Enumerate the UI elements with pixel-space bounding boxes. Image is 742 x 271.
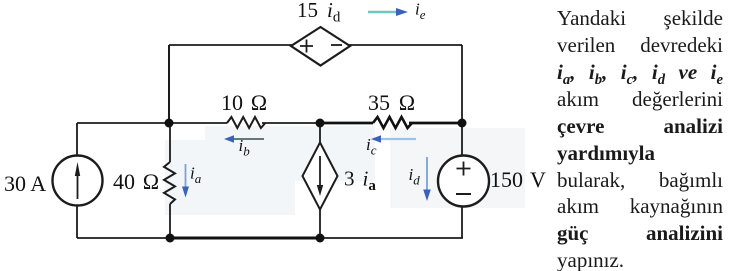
minus sign in diamond	[331, 44, 342, 46]
svg-text:30 A: 30 A	[4, 171, 46, 196]
wire: top riser from middle-left node up	[168, 45, 170, 123]
wire: 35ohm to right node bold	[409, 122, 462, 125]
wire: 40ohm bottom lead	[169, 204, 171, 238]
voltage source V1: 150 V circle	[438, 156, 489, 207]
resistor R3: 40 ohm vertical zigzag	[164, 162, 175, 204]
plus sign in source	[457, 162, 471, 176]
current source I1: 30 A circle	[53, 156, 103, 206]
wire: 150V top lead	[461, 123, 463, 156]
wire: 30A source to bottom wire	[76, 205, 78, 238]
resistor R1: 10 ohm zigzag	[227, 117, 265, 128]
minus sign in source	[456, 193, 471, 195]
arrow inside diamond down	[319, 156, 321, 186]
wire: between 10ohm and center node	[262, 122, 320, 124]
current arrow i_c	[377, 138, 416, 140]
dependent source U1: diamond 15 i_d	[291, 27, 350, 66]
arrow inside 30A source	[77, 172, 79, 199]
wire: top horizontal left of dependent source	[169, 44, 292, 46]
current arrow i_e	[368, 11, 398, 13]
wire: bottom thin left	[77, 237, 170, 239]
svg-text:35 Ω: 35 Ω	[368, 90, 415, 115]
wire: left vertical from middle wire to 30A source	[76, 123, 78, 156]
svg-text:15id: 15id	[297, 0, 341, 26]
node: bottom-left junction	[166, 234, 175, 243]
problem statement text	[557, 0, 723, 1]
wire: diamond bottom lead	[319, 210, 321, 239]
resistor R2: 35 ohm zigzag bold	[373, 117, 412, 128]
wire: right vertical top	[461, 45, 463, 123]
node: middle-center junction	[316, 119, 325, 128]
wire: diamond top lead	[319, 123, 321, 143]
svg-text:ie: ie	[415, 0, 426, 22]
svg-text:150V: 150V	[490, 167, 546, 192]
svg-text:40 Ω: 40 Ω	[113, 169, 159, 194]
wire: middle horizontal bold, center node to 35ohm	[320, 122, 373, 125]
current arrow i_d	[426, 157, 428, 192]
wire: top horizontal right of dependent source	[349, 44, 462, 46]
dependent source U2: diamond 3 i_a	[303, 143, 338, 210]
node: middle-left junction	[165, 119, 174, 128]
faint scan background patches	[205, 126, 375, 181]
wire: bottom thick middle	[170, 237, 320, 240]
svg-text:10 Ω: 10 Ω	[221, 90, 267, 115]
current arrow i_b	[232, 138, 264, 140]
node: bottom-center junction	[316, 234, 325, 243]
wire: bottom thin right	[320, 237, 463, 239]
current arrow i_a	[185, 164, 187, 188]
wire: 150V bottom lead	[461, 207, 463, 239]
wire: 40ohm top lead	[169, 123, 171, 162]
plus sign in diamond	[300, 40, 313, 53]
wire: middle horizontal (thin) left part	[77, 122, 227, 124]
node: middle-right junction	[458, 119, 467, 128]
